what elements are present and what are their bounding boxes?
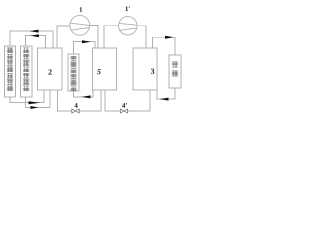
heat source box B (liquid low-temp heat source 2) xyxy=(21,46,33,97)
label 2 (evaporator) xyxy=(48,69,51,74)
arrow on medium source top wire pointing right xyxy=(82,40,91,43)
label text liquid low-temp heat source 2 (box B) xyxy=(23,48,29,91)
heat source box A (liquid low-temp heat source 1) xyxy=(5,46,16,97)
compressor 1 circle xyxy=(70,15,90,35)
compressor 1 internal chords xyxy=(70,23,89,25)
wire: condenser 3 top to user box xyxy=(153,37,176,55)
expansion valve 4 (bowtie) xyxy=(72,109,79,113)
user box xyxy=(169,55,181,88)
wire: exchanger 5 to compressor 1' suction xyxy=(104,26,119,48)
wire: boxA bottom to evaporator 2 bottom xyxy=(10,90,44,103)
expansion valve 4' (bowtie) xyxy=(120,109,127,113)
evaporator 2 xyxy=(38,48,63,90)
wire: medium temp source to exchanger 5 top xyxy=(74,42,96,54)
label text liquid medium-temp heat source (box M) xyxy=(71,56,77,90)
label 1 (compressor 1) xyxy=(80,7,83,11)
wire: exchanger 5 through valve 4 to evaporator 2 xyxy=(58,90,102,111)
wire: condenser 3 through valve 4' to exchanger 5 xyxy=(105,90,150,111)
heat pump schematic diagram xyxy=(0,0,184,120)
arrow on boxB top wire pointing left xyxy=(31,34,39,37)
wire: heat source A supply loop top (box2 to boxA) xyxy=(10,31,53,48)
condenser 3 xyxy=(133,48,157,90)
label 4' (valve) xyxy=(122,103,125,108)
wire: exchanger 5 bottom to medium temp source xyxy=(74,90,94,97)
arrow on user supply wire pointing right xyxy=(165,36,174,39)
medium temperature source box xyxy=(68,54,79,91)
wire: user box bottom back to condenser 3 xyxy=(157,88,175,99)
label 3 (condenser) xyxy=(151,69,154,74)
label text user (box U) xyxy=(172,62,178,76)
arrow on boxB bottom wire pointing right xyxy=(31,106,39,109)
heat exchanger 5 xyxy=(93,48,117,90)
label 4 (valve) xyxy=(74,103,77,108)
wire: boxB bottom to evaporator 2 bottom xyxy=(26,90,51,107)
label 1' (compressor 1') xyxy=(125,7,128,11)
arrow on medium source bottom wire pointing left xyxy=(82,95,91,98)
arrow on boxA bottom wire pointing right xyxy=(29,101,41,104)
compressor 1' circle xyxy=(119,17,137,35)
wire: compressor 1' discharge to condenser 3 xyxy=(137,26,146,48)
wire: heat source B loop top (box2 to boxB) xyxy=(26,36,46,48)
label 5 (exchanger) xyxy=(97,69,101,74)
wire: evaporator 2 to compressor 1 suction xyxy=(57,26,70,48)
label text liquid low-temp heat source 1 (box A) xyxy=(7,48,13,91)
compressor 1' internal chords xyxy=(119,23,137,25)
wire: compressor 1 discharge to exchanger 5 xyxy=(90,25,98,48)
arrow on boxA top wire pointing left xyxy=(30,30,39,33)
arrow on user return wire pointing left xyxy=(160,98,169,101)
